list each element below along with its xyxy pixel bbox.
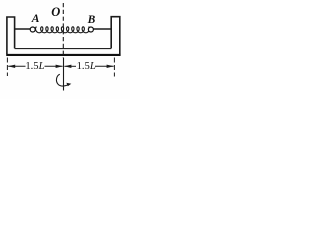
rod right segment — [93, 28, 111, 30]
left dimension line — [8, 65, 25, 67]
svg-text:O: O — [51, 5, 60, 19]
left dim arrowhead (right) — [56, 65, 63, 68]
right dim arrowhead (left) — [64, 65, 71, 68]
floor top line — [15, 48, 112, 50]
left wall — [7, 17, 15, 54]
rod left segment — [15, 28, 31, 30]
spring — [36, 27, 90, 33]
left extension line — [6, 58, 8, 77]
ball A — [30, 27, 35, 32]
right dimension line — [64, 65, 76, 67]
svg-text:A: A — [31, 13, 40, 25]
left dim arrowhead (left) — [8, 65, 15, 68]
right wall — [111, 17, 120, 55]
background — [0, 0, 130, 99]
rotation arrowhead — [66, 83, 71, 87]
floor bottom line — [6, 54, 120, 56]
rotation arrow — [56, 74, 68, 86]
center axis (lower solid) — [63, 58, 65, 91]
ball B — [88, 27, 93, 32]
svg-text:1.5L: 1.5L — [25, 61, 44, 72]
svg-text:1.5L: 1.5L — [77, 61, 96, 72]
right dim arrowhead (right) — [107, 65, 114, 68]
center dashed axis (upper) — [62, 3, 64, 58]
svg-text:B: B — [87, 14, 96, 26]
right extension line — [113, 58, 115, 77]
